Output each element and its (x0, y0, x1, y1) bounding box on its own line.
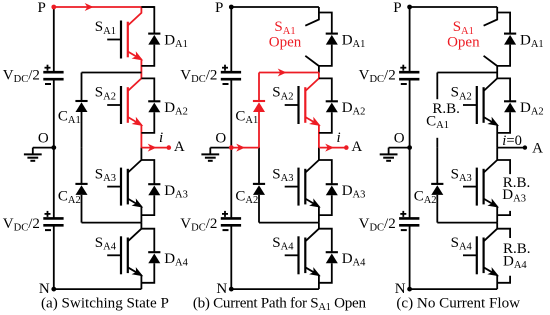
wire: DC rail P to upper capacitor (230, 7, 232, 72)
wire: clamp vertical C_A1 to O (81, 112, 83, 148)
diode D_A2: lower branch wiring (497, 112, 510, 133)
capacitor polarity marks (222, 67, 228, 69)
svg-text:A: A (532, 141, 543, 157)
transistor S_A4: gate lead (463, 254, 477, 256)
clamp diode C_A2: symbol (431, 183, 443, 185)
transistor S_A2: gate lead (463, 104, 477, 106)
clamp diode C_A2: symbol (75, 183, 87, 185)
wire: DC rail between capacitors (230, 79, 232, 218)
transistor S_A4: gate bar (297, 236, 299, 274)
transistor S_A4: gate bar (476, 236, 478, 274)
diode D_A1: lower branch wiring (141, 45, 154, 66)
clamp diode C_A1: symbol (75, 100, 87, 102)
capacitor V_DC/2 (lower): plates (399, 217, 419, 220)
wire: clamp vertical O to C_A2 (436, 148, 438, 184)
diode D_A2: symbol (148, 100, 160, 102)
wire: S_A4 emitter to junction (140, 275, 142, 289)
wire: DC rail between capacitors (409, 79, 411, 218)
clamp diode C_A1: symbol (253, 100, 265, 102)
transistor S_A2: collector stub + lead (484, 73, 498, 92)
capacitor polarity marks (45, 213, 51, 215)
capacitor polarity marks (222, 213, 228, 215)
capacitor polarity marks (400, 213, 406, 215)
diode D_A3: symbol (326, 183, 338, 185)
transistor S_A2: gate bar (297, 86, 299, 124)
ground symbol at node O (33, 147, 54, 149)
transistor S_A3: gate lead (463, 186, 477, 188)
transistor S_A2: gate bar (476, 86, 478, 124)
wire: S_A2 emitter to junction (140, 125, 142, 148)
wire: N rail to S_A4 emitter (231, 288, 319, 290)
diode D_A1: symbol (504, 33, 516, 35)
svg-text:(a) Switching State P: (a) Switching State P (41, 295, 169, 311)
wire: clamp vertical C_A1 to O (258, 112, 260, 148)
transistor S_A2: collector stub + lead (128, 73, 142, 92)
wire: clamp vertical C_A2 to junction S_A3/S_A4 (258, 195, 260, 223)
svg-text:A: A (174, 139, 185, 155)
transistor S_A4: gate bar (120, 236, 122, 274)
wire: junction S_A1/S_A2 to clamp branch (82, 72, 142, 74)
capacitor polarity marks (400, 67, 406, 69)
transistor S_A4: gate lead (107, 254, 121, 256)
diode D_A2: lower branch wiring (319, 112, 332, 133)
wire: clamp vertical C_A2 to junction S_A3/S_A4 (436, 195, 438, 223)
transistor S_A1: gate lead (107, 39, 121, 41)
transistor S_A3: gate bar (297, 168, 299, 206)
svg-text:Open: Open (269, 35, 302, 51)
transistor S_A2: collector stub + lead (305, 73, 319, 92)
wire: clamp vertical O to C_A2 (258, 148, 260, 184)
wire: output to node A (red) (319, 147, 346, 149)
wire: S_A2 emitter to junction (496, 125, 498, 148)
current arrow at O (236, 144, 245, 152)
transistor S_A2: emitter lead with arrow (484, 117, 498, 125)
svg-text:(c) No Current Flow: (c) No Current Flow (396, 295, 520, 311)
diode D_A4 (reverse biased, open): upper stub (497, 229, 510, 238)
diode D_A2: branch wiring (319, 78, 332, 101)
diode D_A1: symbol (326, 33, 338, 35)
diode D_A4: symbol (148, 251, 160, 253)
diode D_A1: branch wiring (319, 13, 332, 34)
wire: top rail P to open switch (410, 6, 498, 8)
diode D_A1: lower branch wiring (319, 45, 332, 66)
transistor S_A3: collector stub + lead (305, 148, 319, 173)
diode D_A3: lower branch wiring (141, 195, 154, 215)
transistor S_A2: body bar (127, 87, 129, 123)
wire: clamp branch to junction S_A3/S_A4 (437, 222, 497, 224)
transistor S_A4: body bar (483, 238, 485, 274)
svg-text:O: O (215, 131, 226, 147)
wire: clamp branch upper vertical (258, 73, 260, 102)
transistor S_A4: emitter lead with arrow (305, 267, 319, 275)
transistor S_A4: collector stub + lead (484, 223, 498, 242)
transistor S_A2: gate bar (120, 86, 122, 124)
transistor S_A4: body bar (304, 238, 306, 274)
svg-text:P: P (215, 0, 223, 16)
wire: clamp branch lower stub (C_A1 open) (436, 138, 438, 148)
open switch S_A1: bottom flag and stub (484, 56, 498, 73)
diode D_A2: branch wiring (141, 78, 154, 101)
wire: S_A3 emitter to junction (318, 207, 320, 223)
transistor S_A4: collector stub + lead (128, 223, 142, 242)
capacitor V_DC/2 (upper): plates (43, 71, 63, 74)
ground symbol at node O (210, 147, 231, 149)
transistor S_A4: emitter lead with arrow (128, 267, 142, 275)
wire: top rail P to open switch (231, 6, 319, 8)
wire: S_A4 emitter to junction (496, 275, 498, 289)
wire: output to node A (497, 147, 525, 149)
wire: red current path P to S_A1 collector (54, 6, 142, 8)
diode D_A3: lower branch wiring (319, 195, 332, 215)
transistor S_A3: gate lead (285, 186, 299, 188)
wire: DC rail lower capacitor to N (53, 225, 55, 289)
transistor S_A3: body bar (483, 169, 485, 205)
wire: S_A3 emitter to junction (140, 207, 142, 223)
capacitor polarity marks (45, 67, 51, 69)
clamp diode C_A2: symbol (253, 183, 265, 185)
capacitor V_DC/2 (lower): plates (221, 217, 241, 220)
wire: clamp branch upper stub (C_A1 open) (436, 73, 438, 100)
transistor S_A3: emitter lead with arrow (484, 199, 498, 207)
transistor S_A4: collector stub + lead (305, 223, 319, 242)
node A (344, 145, 349, 150)
node A (167, 145, 172, 150)
capacitor V_DC/2 (upper): plates (221, 71, 241, 74)
svg-text:(b) Current Path for SA1 Open: (b) Current Path for SA1 Open (193, 295, 367, 313)
open switch S_A1: top stub and flag (305, 7, 319, 26)
transistor S_A3: gate bar (476, 168, 478, 206)
svg-text:A: A (351, 139, 362, 155)
transistor S_A3: gate lead (107, 186, 121, 188)
wire: O to clamp branch (red) (231, 147, 259, 149)
transistor S_A2: body bar (483, 87, 485, 123)
transistor S_A2: emitter lead with arrow (128, 117, 142, 125)
diode D_A4: lower branch wiring (141, 263, 154, 283)
svg-text:R.B.: R.B. (432, 101, 460, 117)
diode D_A1: branch wiring (497, 13, 510, 34)
current arrow on junction wire (278, 69, 287, 77)
wire: S_A2 emitter to junction (318, 125, 320, 148)
diode D_A2: symbol (504, 100, 516, 102)
diode D_A2: lower branch wiring (141, 112, 154, 133)
current arrow i at output (148, 144, 157, 152)
wire: clamp branch upper vertical (81, 73, 83, 102)
wire: N rail to S_A4 emitter (410, 288, 498, 290)
transistor S_A2: body bar (304, 87, 306, 123)
transistor S_A3: body bar (127, 169, 129, 205)
diode D_A1: lower branch wiring (497, 45, 510, 66)
transistor S_A2: gate lead (285, 104, 299, 106)
open switch S_A1: bottom flag and stub (305, 56, 319, 73)
svg-text:P: P (38, 0, 46, 16)
diode D_A4 (reverse biased, open): lower stub (497, 276, 510, 283)
wire: junction S_A1/S_A2 to clamp branch (437, 72, 497, 74)
open switch S_A1: top stub and flag (484, 7, 498, 26)
wire: output to node A (red) (141, 147, 168, 149)
diode D_A3: branch wiring (319, 160, 332, 184)
diode D_A3: symbol (148, 183, 160, 185)
transistor S_A3: collector stub + lead (128, 148, 142, 173)
capacitor V_DC/2 (lower): plates (43, 217, 63, 220)
svg-text:P: P (393, 0, 401, 16)
transistor S_A3: emitter lead with arrow (128, 199, 142, 207)
transistor S_A3: body bar (304, 169, 306, 205)
svg-text:i: i (159, 130, 163, 146)
wire: clamp vertical O to C_A2 (81, 148, 83, 184)
diode D_A2: symbol (326, 100, 338, 102)
node A (523, 145, 527, 149)
transistor S_A1: emitter lead with arrow (128, 52, 142, 60)
transistor S_A3: gate bar (120, 168, 122, 206)
wire: DC rail P to upper capacitor (53, 7, 55, 72)
wire: S_A1 emitter to junction (140, 60, 142, 73)
wire: DC rail P to upper capacitor (409, 7, 411, 72)
transistor S_A2: emitter lead with arrow (305, 117, 319, 125)
current arrow i at output (325, 144, 334, 152)
wire: S_A3 emitter to junction (496, 207, 498, 223)
ground symbol at node O (389, 147, 410, 149)
transistor S_A1: collector stub + lead (128, 7, 142, 26)
transistor S_A1: body bar (127, 22, 129, 58)
wire: top rail to D_A1 (141, 6, 154, 8)
diode D_A1: branch wiring (141, 7, 154, 34)
diode D_A4: symbol (326, 251, 338, 253)
wire: N rail to S_A4 emitter (54, 288, 142, 290)
wire: DC rail lower capacitor to N (409, 225, 411, 289)
wire: clamp vertical C_A2 to junction S_A3/S_A4 (81, 195, 83, 223)
current arrow on P wire (85, 3, 94, 11)
transistor S_A3: emitter lead with arrow (305, 199, 319, 207)
wire: DC rail lower capacitor to N (230, 225, 232, 289)
capacitor V_DC/2 (upper): plates (399, 71, 419, 74)
transistor S_A2: gate lead (107, 104, 121, 106)
svg-text:i=0: i=0 (502, 133, 522, 149)
wire: clamp branch to junction S_A3/S_A4 (259, 222, 319, 224)
diode D_A3 (reverse biased, open): upper stub (497, 160, 510, 174)
wire: junction S_A1/S_A2 to clamp branch (259, 72, 319, 74)
diode D_A3 (reverse biased, open): lower stub (497, 211, 510, 215)
diode D_A4: branch wiring (141, 229, 154, 253)
diode D_A4: lower branch wiring (319, 263, 332, 283)
wire: S_A4 emitter to junction (318, 275, 320, 289)
diode D_A1: symbol (148, 33, 160, 35)
transistor S_A4: gate lead (285, 254, 299, 256)
transistor S_A3: collector stub + lead (484, 148, 498, 173)
transistor S_A1: gate bar (120, 21, 122, 59)
transistor S_A4: emitter lead with arrow (484, 267, 498, 275)
svg-text:i: i (337, 130, 341, 146)
wire: clamp branch to junction S_A3/S_A4 (82, 222, 142, 224)
diode D_A2: branch wiring (497, 78, 510, 101)
diode D_A4: branch wiring (319, 229, 332, 253)
wire: DC rail between capacitors (53, 79, 55, 218)
svg-text:O: O (394, 131, 405, 147)
svg-text:O: O (38, 131, 49, 147)
svg-text:Open: Open (447, 35, 480, 51)
diode D_A3: branch wiring (141, 160, 154, 184)
transistor S_A4: body bar (127, 238, 129, 274)
